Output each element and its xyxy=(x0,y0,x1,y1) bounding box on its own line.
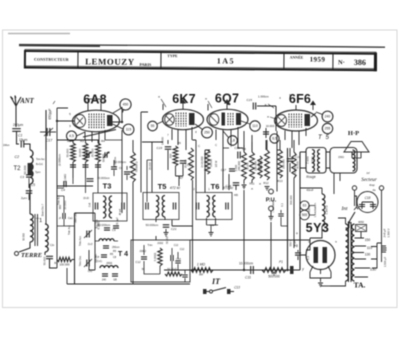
wire HP leads xyxy=(352,152,361,158)
resistor R11 xyxy=(250,152,258,186)
svg-text:Trim: Trim xyxy=(148,244,153,247)
resistor R6 xyxy=(169,141,182,166)
pin mark x 6K7 xyxy=(158,94,166,107)
label T5 472kc xyxy=(158,182,181,191)
resistor 2x10.000 xyxy=(200,150,218,174)
label pu plus xyxy=(294,244,298,248)
label T2 xyxy=(13,166,21,172)
node 255 on 6F6 xyxy=(322,123,332,133)
tube 6F6 envelope xyxy=(275,110,318,131)
tube 6K7 grids hatch xyxy=(176,113,186,127)
label 50.000cm under T5 xyxy=(146,223,159,227)
svg-text:R8: R8 xyxy=(199,273,203,277)
node 450 on 6A8 xyxy=(113,99,131,113)
output transformer primary coil xyxy=(307,150,315,172)
label 10.000cm bottom xyxy=(239,262,253,266)
label Rouge xyxy=(306,175,316,179)
svg-text:1.000cm: 1.000cm xyxy=(258,95,269,99)
ground PU xyxy=(269,211,274,220)
capacitor 8uF a xyxy=(289,239,297,246)
tube 6F6 cathode xyxy=(277,115,287,127)
svg-text:50.000: 50.000 xyxy=(297,161,300,169)
svg-text:7080Ω: 7080Ω xyxy=(312,156,315,164)
label 6f6 x2 xyxy=(279,93,291,100)
svg-text:50.000: 50.000 xyxy=(166,236,169,244)
svg-text:|2.000cm: |2.000cm xyxy=(58,153,62,165)
svg-text:50.000: 50.000 xyxy=(102,153,106,162)
svg-text:T6: T6 xyxy=(211,182,220,191)
label hp small xyxy=(338,156,344,159)
resistor R12 xyxy=(259,150,269,185)
capacitor T5 left xyxy=(146,203,148,210)
svg-text:0,1MΩ: 0,1MΩ xyxy=(63,174,67,182)
svg-text:1.500 μF: 1.500 μF xyxy=(383,256,387,267)
label tap 110 xyxy=(367,246,373,250)
svg-text:R12: R12 xyxy=(263,181,269,185)
terminal PU bottom xyxy=(269,206,274,211)
wire t5 left lead xyxy=(147,160,152,202)
svg-text:Cv2: Cv2 xyxy=(88,269,93,273)
svg-text:R6: R6 xyxy=(177,141,181,145)
svg-text:6F6: 6F6 xyxy=(289,92,311,106)
label 40mF xyxy=(306,188,313,192)
svg-text:Buc Osc: Buc Osc xyxy=(96,253,98,263)
terminal mains left xyxy=(352,186,356,190)
node 1,8 on 6Q7 xyxy=(223,131,237,145)
svg-text:C15: C15 xyxy=(246,98,252,102)
svg-text:6,3: 6,3 xyxy=(306,256,310,260)
field coil excitation xyxy=(313,194,329,226)
node 55 on 6K7 xyxy=(148,121,164,131)
svg-text:4050: 4050 xyxy=(358,220,364,224)
wire bus to rectifier cap xyxy=(299,256,301,270)
label osc extra xyxy=(119,208,122,215)
label 6A8 xyxy=(83,93,107,107)
wire T2 to T1 xyxy=(29,184,31,214)
terminal mains right xyxy=(379,186,383,190)
tube 5Y3 leads xyxy=(298,255,331,282)
wire 6K7 cathode net xyxy=(168,140,183,186)
label T3 xyxy=(103,182,112,191)
svg-text:565: 565 xyxy=(302,213,308,217)
ground R12 xyxy=(265,187,270,190)
box oscillator xyxy=(89,213,133,284)
svg-text:TYPE: TYPE xyxy=(167,54,178,58)
tube 5Y3 plates xyxy=(314,247,328,263)
svg-text:1 MΩ: 1 MΩ xyxy=(197,263,206,267)
resistor R3 xyxy=(78,139,89,167)
wire T1 to TERRE xyxy=(19,242,30,252)
capacitor 10.000 6F6 xyxy=(263,124,275,134)
svg-text:Cv3: Cv3 xyxy=(88,242,93,246)
svg-text:B+Cv1: B+Cv1 xyxy=(36,164,44,166)
label ANT xyxy=(19,98,34,105)
wire bus y186 xyxy=(57,185,93,187)
svg-text:2 serie: 2 serie xyxy=(307,156,310,164)
label values right xyxy=(272,199,275,212)
svg-text:15.000: 15.000 xyxy=(184,159,188,168)
wire 6Q7 to R10 xyxy=(238,131,252,152)
wire resistor feeds xyxy=(73,178,98,193)
transformer T3 box xyxy=(93,193,127,221)
tube 6Q7 diode plates xyxy=(222,113,226,126)
label cv8 xyxy=(83,198,91,207)
capacitor C4 xyxy=(61,181,66,192)
capacitor T5 right xyxy=(173,203,175,210)
capacitor electrolytic marks xyxy=(382,246,387,252)
capacitor C18 circle xyxy=(357,192,378,213)
svg-text:Int: Int xyxy=(340,206,348,212)
capacitor C2 xyxy=(15,138,28,159)
node 6,5 on 6F6 xyxy=(270,134,279,143)
wire left links xyxy=(57,196,75,226)
node plus8 xyxy=(296,231,299,236)
svg-text:150Ω: 150Ω xyxy=(338,156,344,159)
label 6F6 xyxy=(289,92,311,106)
wire CV1 junction xyxy=(45,150,47,224)
svg-text:130: 130 xyxy=(365,253,371,257)
label cd2 xyxy=(50,244,55,247)
wire PU down xyxy=(270,222,272,270)
label more under 6q7 xyxy=(215,144,232,148)
svg-text:+: + xyxy=(296,231,299,236)
coil 6.380 ohm xyxy=(95,221,118,241)
svg-text:14.000: 14.000 xyxy=(161,136,165,144)
svg-text:C12: C12 xyxy=(174,244,179,247)
ground 5Y3 xyxy=(318,283,323,286)
capacitor C15 xyxy=(246,95,269,110)
wire R1 to junction xyxy=(72,213,75,284)
svg-text:.0002: .0002 xyxy=(139,249,146,253)
transformer T6 primary coil xyxy=(207,196,210,218)
label 25 mid xyxy=(149,162,152,170)
svg-text:C12: C12 xyxy=(180,248,185,251)
resistor 70.000 xyxy=(131,152,139,182)
wire IT leads xyxy=(207,291,235,293)
wire transformer links xyxy=(300,152,340,194)
svg-text:.0002: .0002 xyxy=(106,261,113,265)
wire x133 link xyxy=(132,140,134,213)
svg-text:45 tpF: 45 tpF xyxy=(119,208,122,215)
label 6.380 left xyxy=(68,225,71,235)
svg-text:250.000: 250.000 xyxy=(282,159,286,169)
wire taps join xyxy=(371,240,382,268)
svg-text:1/2 W: 1/2 W xyxy=(215,160,218,167)
label 660 left xyxy=(58,204,62,219)
wire T6 bottom to bus xyxy=(209,225,218,226)
wire top left tube lead xyxy=(88,99,101,104)
svg-text:5Y3: 5Y3 xyxy=(306,221,330,235)
svg-text:15-20: 15-20 xyxy=(83,198,90,200)
label 4 amp xyxy=(373,188,376,192)
svg-text:25.000: 25.000 xyxy=(149,162,152,170)
capacitor 8uF bars xyxy=(295,250,301,260)
wire heater rail xyxy=(190,239,310,241)
label T4 xyxy=(118,251,128,258)
node 240 on 6F6 xyxy=(316,111,333,122)
tube 6Q7 cathode xyxy=(209,114,219,126)
power transformer primary coil xyxy=(346,224,349,281)
wire c6 xyxy=(113,160,115,176)
label 6,3 5Y3 xyxy=(306,256,310,260)
wire cap to bottom bus xyxy=(50,259,58,268)
resistor R8 1Mohm xyxy=(191,263,213,277)
svg-text:PARIS: PARIS xyxy=(140,62,153,67)
transformer T6 secondary coil xyxy=(213,196,216,218)
svg-text:450: 450 xyxy=(123,103,129,107)
capacitor C17 trimmer xyxy=(40,128,56,143)
svg-text:C21: C21 xyxy=(171,227,177,231)
label T1 xyxy=(36,218,42,224)
capacitor 10.000cm xyxy=(87,176,111,181)
svg-text:255: 255 xyxy=(325,127,331,131)
pin mark x 6Q7 xyxy=(205,96,212,108)
wire field coil xyxy=(321,188,323,232)
capacitor C21 xyxy=(163,225,177,231)
svg-text:+8: +8 xyxy=(294,244,298,248)
wire C15 net xyxy=(257,106,276,150)
svg-text:1.500 V: 1.500 V xyxy=(387,228,391,237)
svg-text:10.000c: 10.000c xyxy=(64,200,67,210)
label margin 1Mun xyxy=(3,143,10,147)
label 7um xyxy=(35,170,41,174)
ground T6b xyxy=(209,233,214,236)
wire C7 link xyxy=(126,166,128,180)
capacitor C19 xyxy=(156,136,171,150)
svg-text:GB: GB xyxy=(113,279,117,282)
ground T5 xyxy=(164,233,169,236)
label values under 6Q7 xyxy=(234,164,238,171)
svg-text:T 4: T 4 xyxy=(118,251,128,258)
svg-text:C18: C18 xyxy=(365,196,371,200)
svg-text:C13: C13 xyxy=(234,286,240,290)
svg-text:5.000Ω: 5.000Ω xyxy=(153,253,157,261)
label 30.000 near R11 xyxy=(247,162,250,170)
capacitor C16b xyxy=(221,146,240,172)
svg-text:Rouge: Rouge xyxy=(306,175,316,179)
transformer T1 secondary coil xyxy=(45,224,48,252)
svg-text:2×8 μF: 2×8 μF xyxy=(383,228,387,237)
svg-text:C1: C1 xyxy=(18,134,22,138)
transformer T1 core xyxy=(35,214,38,246)
svg-text:10.000cm: 10.000cm xyxy=(239,262,253,266)
box T4 xyxy=(131,240,190,282)
wire int to primary xyxy=(346,227,350,229)
svg-text:30.000: 30.000 xyxy=(247,162,250,170)
scan artifact smudge line xyxy=(8,33,70,35)
label 500.000 right xyxy=(289,195,293,205)
label tap 150 xyxy=(365,238,371,242)
svg-text:50.000: 50.000 xyxy=(23,165,27,175)
label bottom box texts xyxy=(148,244,185,251)
capacitor small pu xyxy=(278,214,284,216)
svg-text:100.000: 100.000 xyxy=(59,263,70,267)
svg-text:240: 240 xyxy=(325,115,331,119)
svg-text:1A5: 1A5 xyxy=(217,57,235,66)
svg-text:55: 55 xyxy=(151,124,155,128)
label 50000 t2 xyxy=(23,233,26,241)
svg-text:50.000: 50.000 xyxy=(209,158,213,166)
svg-text:R9: R9 xyxy=(242,147,246,151)
capacitor C20 xyxy=(180,161,193,167)
wire fuse to tap xyxy=(361,232,364,239)
node 565 xyxy=(300,210,310,220)
svg-text:110: 110 xyxy=(252,124,258,128)
svg-text:63: 63 xyxy=(303,204,307,208)
svg-text:C11: C11 xyxy=(245,276,251,280)
svg-text:472 kc: 472 kc xyxy=(223,186,234,190)
svg-text:115: 115 xyxy=(126,128,132,132)
capacitor C below TERRE xyxy=(43,256,54,265)
title block table xyxy=(25,49,376,71)
svg-text:500.000: 500.000 xyxy=(289,195,293,205)
label HP xyxy=(348,130,359,137)
resistor third xyxy=(258,156,262,178)
svg-text:C6: C6 xyxy=(119,166,123,170)
wire field coil to B plus xyxy=(300,188,322,250)
svg-text:4.51 μμF: 4.51 μμF xyxy=(116,217,119,227)
label 0.1M xyxy=(58,153,62,165)
node 250 on 6K7 xyxy=(195,124,212,138)
svg-text:C17: C17 xyxy=(221,168,227,172)
tube 5Y3 filament xyxy=(310,266,331,274)
svg-text:10.000cm: 10.000cm xyxy=(97,176,110,180)
label C7 xyxy=(124,165,133,174)
svg-text:LEMOUZY: LEMOUZY xyxy=(85,56,135,66)
label TERRE xyxy=(21,252,42,259)
svg-text:T1: T1 xyxy=(36,218,42,224)
svg-text:P1: P1 xyxy=(279,260,283,264)
wire excitation node xyxy=(309,206,315,216)
label 465 node xyxy=(193,187,210,191)
node 63 xyxy=(300,201,309,210)
svg-text:ANNÉE: ANNÉE xyxy=(290,55,304,60)
tube 6F6 pin marks xyxy=(264,102,276,119)
svg-text:7μm: 7μm xyxy=(35,170,41,174)
label trim bottom xyxy=(96,253,98,263)
wire pu link xyxy=(281,210,288,226)
wire 6A8 grid to CV xyxy=(57,120,75,122)
svg-text:N·: N· xyxy=(338,59,345,66)
resistor R7 xyxy=(179,148,193,180)
wire 295 rail xyxy=(293,140,295,248)
svg-text:T5: T5 xyxy=(158,182,167,191)
wire t2 sec xyxy=(28,170,30,188)
svg-text:Cv8: Cv8 xyxy=(89,202,92,207)
transformer T3 coil b xyxy=(109,196,112,218)
svg-text:465: 465 xyxy=(234,194,239,197)
svg-text:H·P: H·P xyxy=(348,130,359,137)
wire osc box top xyxy=(75,203,123,213)
label PU xyxy=(266,198,277,204)
svg-text:Inf: Inf xyxy=(367,171,370,175)
label 1.000cm xyxy=(113,157,117,167)
wire 6Q7 bias net xyxy=(223,148,236,190)
wire CV branch xyxy=(45,110,47,150)
label T6 472kc xyxy=(211,182,234,191)
wire T1 secondary down xyxy=(44,252,46,255)
wire 6K7 leads to T5 xyxy=(142,142,163,193)
output transformer secondary coil xyxy=(318,150,320,172)
svg-text:IT: IT xyxy=(211,277,221,286)
svg-text:C2: C2 xyxy=(15,155,20,159)
wire R2 top xyxy=(73,140,98,178)
label tap 130 xyxy=(365,253,371,257)
terminal PU top xyxy=(269,189,274,194)
svg-text:10.000: 10.000 xyxy=(78,148,82,157)
wire B+ vertical right xyxy=(287,148,289,270)
trimmer Cv3 xyxy=(78,230,93,246)
svg-text:Buc Osc: Buc Osc xyxy=(96,219,99,229)
top cap 6K7 xyxy=(180,99,186,104)
capacitor C21a xyxy=(113,226,119,228)
power transformer secondary coil xyxy=(352,224,355,281)
label dram xyxy=(42,203,45,216)
label 42 near 6k7 xyxy=(167,131,197,137)
transformer T3 coil a xyxy=(103,196,106,218)
wire 450 tail xyxy=(123,110,124,113)
wire C1 to C2 xyxy=(17,132,20,145)
svg-text:C17: C17 xyxy=(46,139,54,143)
svg-text:70.000 Ω: 70.000 Ω xyxy=(135,162,139,173)
power transformer core xyxy=(349,222,352,282)
potentiometer P1 xyxy=(262,260,286,279)
svg-text:R1: R1 xyxy=(54,261,58,265)
label 465 t6 xyxy=(234,194,239,197)
resistor in T4 b xyxy=(165,267,182,276)
switch IT xyxy=(203,286,240,295)
wire T6 down stubs xyxy=(207,218,216,225)
wire t6 bottom tie xyxy=(207,225,216,232)
svg-text:T3: T3 xyxy=(103,182,112,191)
capacitor 2x8uF xyxy=(383,228,391,237)
resistor R1 horizontal xyxy=(54,257,72,266)
terminal TERRE xyxy=(15,252,19,256)
svg-text:R13: R13 xyxy=(277,179,283,183)
svg-text:ANT: ANT xyxy=(19,98,34,105)
svg-text:250: 250 xyxy=(204,131,210,135)
svg-text:200μm: 200μm xyxy=(13,123,23,127)
svg-text:50.000: 50.000 xyxy=(43,256,47,265)
label values left box xyxy=(58,195,68,210)
capacitor in T4 c xyxy=(171,255,181,261)
capacitor C9 xyxy=(103,228,120,249)
transformer T2 primary coil xyxy=(23,150,33,184)
wire primary top xyxy=(330,218,346,286)
label inside T4 more xyxy=(142,242,179,271)
svg-text:C3: C3 xyxy=(20,175,24,179)
label 5Y3 xyxy=(306,221,330,235)
resistor R14 xyxy=(292,152,300,178)
label 50.000cm under T3 xyxy=(98,223,111,227)
svg-text:×: × xyxy=(335,240,337,244)
label R9 xyxy=(242,147,246,151)
capacitor C11 xyxy=(245,266,253,280)
tube 6F6 anode xyxy=(305,114,311,126)
tube 6Q7 leads xyxy=(208,104,238,149)
svg-text:10.000: 10.000 xyxy=(266,124,275,128)
label 50.000 bottom mid xyxy=(166,236,169,244)
svg-text:1Mun: 1Mun xyxy=(3,143,10,147)
svg-text:250cm: 250cm xyxy=(112,246,120,249)
resistor R4 xyxy=(91,139,106,167)
transformer T1 primary coil xyxy=(30,214,33,242)
top cap 6Q7 xyxy=(224,99,230,104)
wire C5 link xyxy=(28,184,30,200)
ground x marks xyxy=(243,181,262,191)
resistor in T4 xyxy=(153,248,162,266)
wire int arrow lead xyxy=(355,196,357,207)
